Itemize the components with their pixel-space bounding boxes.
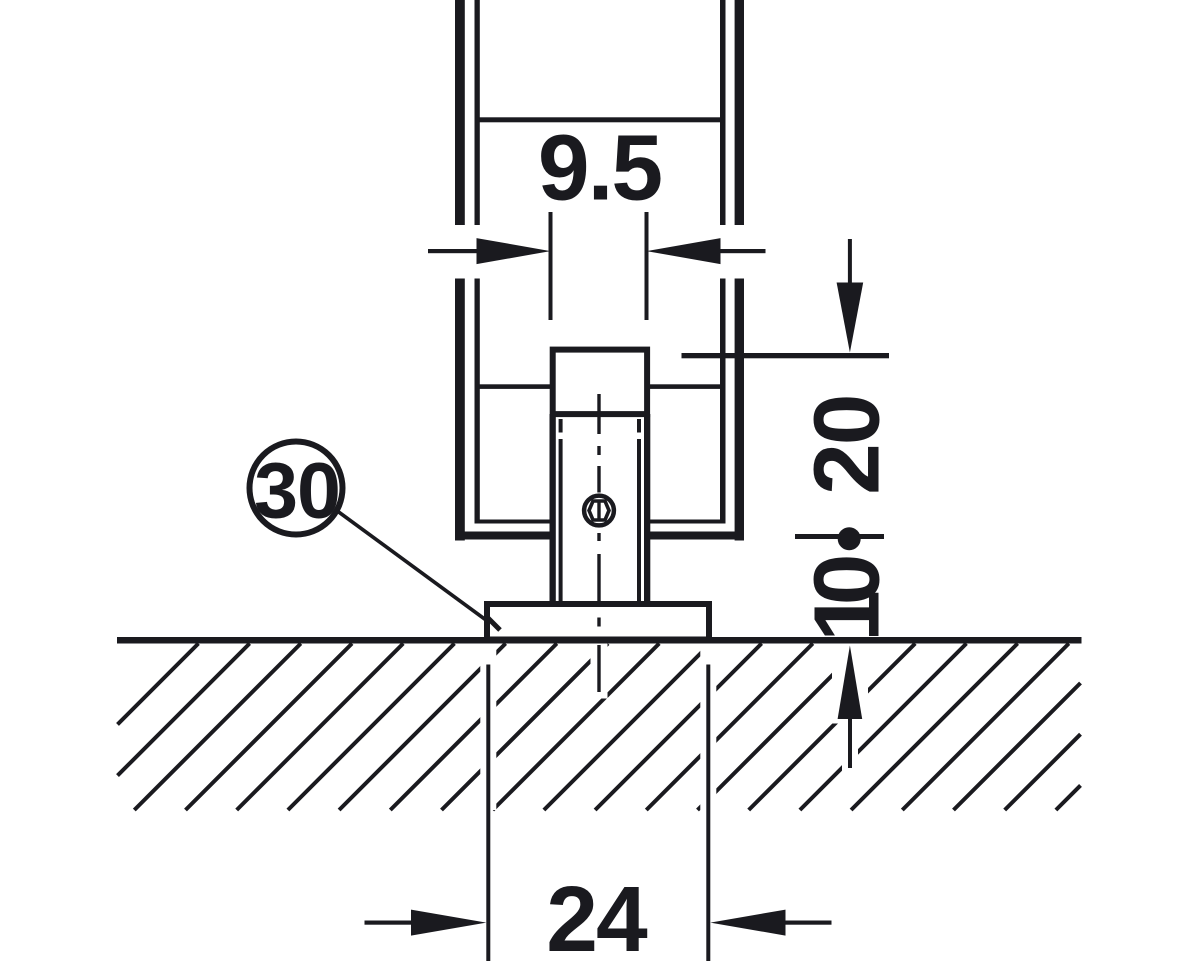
guide cap block bbox=[553, 350, 647, 415]
guide body right inner line upper bbox=[637, 419, 641, 433]
door bottom inner edge left bbox=[475, 520, 553, 524]
dim 24 left extension line bbox=[486, 665, 490, 961]
hatch break around floor arrow bbox=[832, 644, 868, 724]
set screw center tick bbox=[597, 501, 600, 521]
dim 10 up arrowhead below floor bbox=[838, 646, 863, 720]
hatch break around left extension line bbox=[480, 644, 496, 811]
dim 9.5 right arrowhead bbox=[647, 238, 721, 264]
centerline dash 4 below floor bbox=[597, 645, 600, 692]
dim 9.5 right arrow line bbox=[721, 249, 766, 253]
dim 24 right arrow line bbox=[786, 921, 832, 925]
door right outer wall upper segment bbox=[735, 0, 744, 225]
door right inner wall lower segment bbox=[720, 279, 726, 524]
leader line end tick bbox=[487, 617, 500, 630]
door cavity shoulder line left bbox=[477, 384, 553, 389]
dim 9.5 left arrowhead bbox=[477, 238, 551, 264]
door bottom outer edge right bbox=[648, 532, 744, 540]
hatch break around floor arrow tail bbox=[842, 724, 858, 776]
svg-text:10: 10 bbox=[794, 557, 898, 642]
guide body right outer wall bbox=[644, 414, 650, 604]
leader line from balloon to base plate bbox=[338, 512, 488, 622]
dim 24 right extension line bbox=[706, 665, 710, 961]
dim 20-10 dot reference line bbox=[795, 534, 884, 539]
floor line bbox=[117, 637, 1082, 644]
centerline dash 1 bbox=[597, 394, 600, 434]
hatch break around centerline bbox=[591, 644, 608, 699]
set screw circle bbox=[584, 496, 614, 526]
centerline dot 2 bbox=[597, 533, 600, 541]
guide body left inner line upper bbox=[559, 419, 563, 433]
hatch break around right extension line bbox=[700, 644, 716, 811]
dim 24 left arrowhead bbox=[411, 910, 486, 936]
guide body right inner line lower bbox=[637, 439, 641, 602]
guide body left inner line lower bbox=[559, 439, 563, 602]
base plate bbox=[487, 604, 709, 640]
door left outer wall upper segment bbox=[455, 0, 465, 225]
svg-text:24: 24 bbox=[546, 867, 648, 961]
guide body left outer wall bbox=[550, 414, 556, 604]
door left outer wall lower segment bbox=[455, 279, 465, 541]
dim 10 arrow tail bbox=[848, 719, 852, 768]
door left inner wall upper segment bbox=[475, 0, 480, 225]
dim 20 arrow tail bbox=[848, 239, 852, 283]
item number balloon circle 30 bbox=[250, 442, 343, 535]
door cavity shoulder line right bbox=[647, 384, 721, 389]
set screw hexagon bbox=[589, 501, 609, 520]
dim 20 top reference line bbox=[682, 353, 890, 358]
floor hatching bbox=[118, 644, 1081, 811]
dim 24 left arrow line bbox=[365, 921, 412, 925]
svg-text:20: 20 bbox=[794, 395, 898, 494]
door left inner wall lower segment bbox=[475, 279, 480, 524]
door bottom outer edge left bbox=[456, 532, 553, 540]
centerline dot 1 bbox=[597, 446, 600, 455]
dim 24 right arrowhead bbox=[710, 910, 785, 936]
dim 9.5 right extension line bbox=[645, 212, 649, 320]
centerline dot 3 inside plate bbox=[597, 618, 600, 627]
door right outer wall lower segment bbox=[735, 279, 744, 541]
centerline dash 3 bbox=[597, 554, 600, 602]
door bottom inner edge right bbox=[648, 520, 725, 524]
dim 9.5 left extension line bbox=[549, 212, 553, 320]
dim 20 down arrowhead bbox=[837, 283, 864, 353]
svg-text:30: 30 bbox=[254, 446, 340, 535]
dim 10 dot terminator bbox=[838, 527, 861, 550]
centerline dash 2 bbox=[597, 466, 600, 493]
door right inner wall upper segment bbox=[720, 0, 726, 225]
door groove top line bbox=[475, 117, 726, 122]
dim 9.5 left arrow line bbox=[428, 249, 477, 253]
svg-text:9.5: 9.5 bbox=[538, 116, 662, 220]
